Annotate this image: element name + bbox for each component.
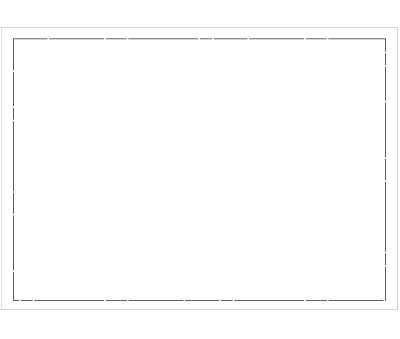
paper edge right xyxy=(397,28,399,310)
paper edge bottom xyxy=(0,309,398,311)
border frame xyxy=(14,39,386,301)
paper edge left xyxy=(1,28,3,310)
paper edge top xyxy=(0,27,398,29)
